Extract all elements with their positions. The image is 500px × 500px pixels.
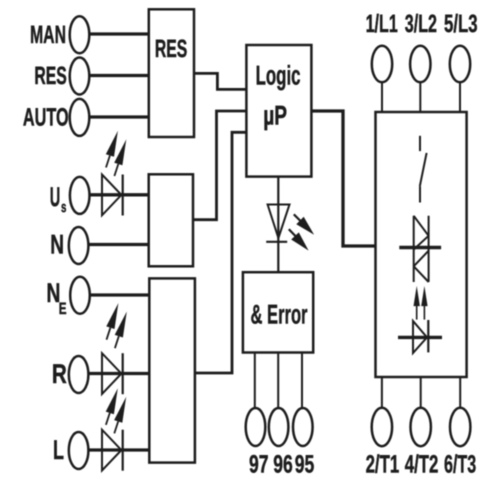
terminal 3/L2 [410,46,430,83]
triac gate bar [399,246,441,249]
svg-text:MAN: MAN [30,21,66,49]
LED Us [102,131,126,216]
svg-text:96: 96 [273,450,293,478]
LED status [266,205,314,251]
terminal 1/L1 [372,46,392,83]
svg-text:N: N [50,230,64,260]
svg-text:RES: RES [155,35,187,63]
LED R [102,303,127,394]
terminal 5/L3 [450,46,470,83]
svg-text:97: 97 [249,450,269,478]
optocoupler light arrows [414,286,428,320]
wire 4/T2 [420,377,422,408]
wire MAN to RES block [90,32,150,35]
svg-text:E: E [59,300,67,318]
svg-text:2/T1: 2/T1 [366,450,400,478]
svg-text:s: s [61,199,66,216]
terminal MAN [70,16,90,53]
terminal 95 [293,408,313,446]
svg-text:3/L2: 3/L2 [405,10,437,38]
LED L [102,388,126,471]
wire N to input block [89,243,149,246]
wire 2/T1 [381,377,383,408]
terminal 2/T1 [372,408,392,446]
terminal Us [70,177,90,214]
svg-text:& Error: & Error [251,300,308,330]
terminal RES [70,58,90,95]
triac [414,216,429,282]
wire 5/L3 to power block [459,82,461,112]
terminal L [69,432,89,469]
svg-text:5/L3: 5/L3 [444,10,478,38]
wire Us to input block [90,193,149,196]
svg-text:Logic: Logic [256,60,301,90]
svg-text:4/T2: 4/T2 [405,450,439,478]
terminal 97 [246,408,266,446]
terminal R [69,356,89,393]
terminal 6/T3 [450,408,470,446]
switch S1 [420,136,427,203]
photo diode [398,320,442,353]
wire NE/R/L block to Logic µP [195,132,247,373]
svg-text:1/L1: 1/L1 [366,10,398,38]
wire 6/T3 [459,377,461,408]
terminal AUTO [70,99,90,136]
wire RES to RES block [90,74,150,77]
wire 1/L1 to power block [381,82,383,112]
terminal 4/T2 [411,408,431,446]
terminal NE [70,277,90,314]
wire NE to input block [90,293,149,296]
svg-text:R: R [52,359,67,389]
block input Us/N [149,174,193,266]
wire AUTO to RES block [90,115,150,118]
wire 97 [254,353,256,409]
svg-text:L: L [53,435,64,465]
wire 3/L2 to power block [419,82,421,112]
wire Logic µP to status LED [277,177,279,273]
svg-text:95: 95 [295,450,315,478]
wire input block to Logic µP [193,111,246,220]
block Logic µP [246,45,311,177]
svg-text:6/T3: 6/T3 [444,450,476,478]
svg-text:AUTO: AUTO [23,104,69,132]
wire R to input block [89,372,150,375]
svg-text:U: U [50,182,61,212]
block power stage [376,112,467,377]
wire RES block to Logic µP [194,73,246,89]
terminal N [69,227,89,264]
wire 95 [301,353,303,409]
block & Error [243,272,313,352]
svg-text:RES: RES [34,62,66,90]
svg-text:µP: µP [263,101,287,131]
block RES [149,9,194,137]
block input NE/R/L [149,278,195,462]
wire L to input block [89,448,150,451]
wire 96 [277,353,279,409]
wire Logic µP to triac gate [311,111,375,246]
terminal 96 [269,408,289,446]
